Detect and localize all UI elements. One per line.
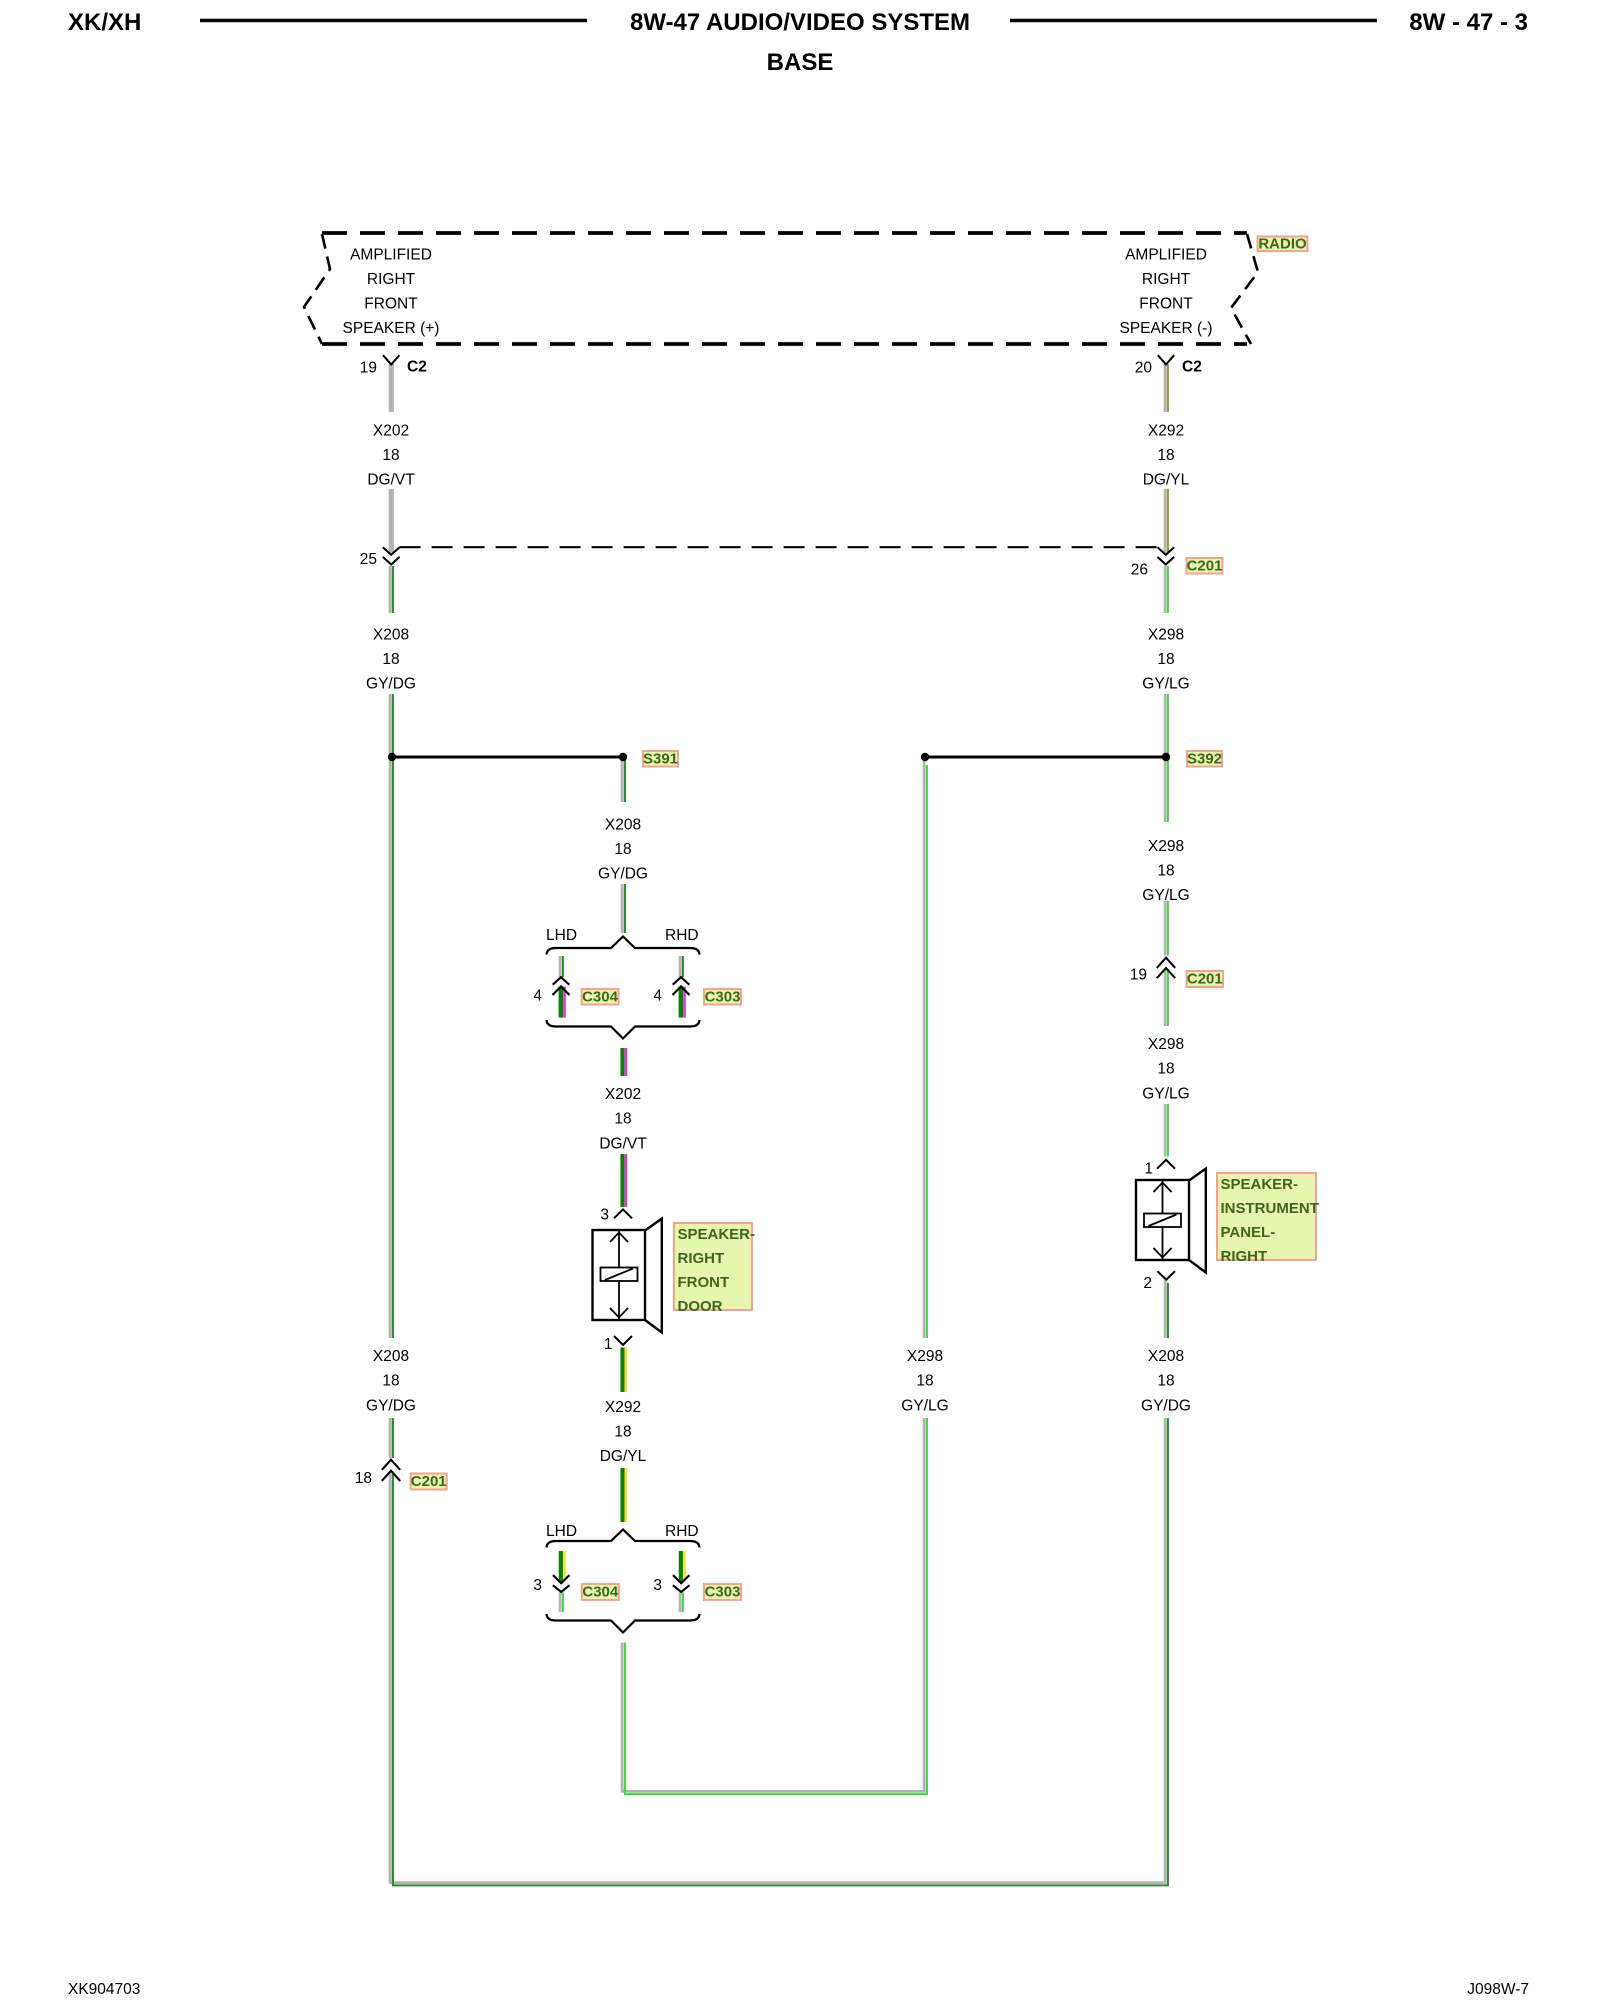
svg-text:FRONT: FRONT — [1139, 296, 1193, 313]
connector C304 pin 3 arrowhead — [553, 1575, 569, 1583]
svg-text:C201: C201 — [1187, 558, 1223, 575]
connector label C304 upper — [582, 989, 619, 1006]
page subtitle BASE — [767, 49, 834, 76]
svg-text:C2: C2 — [1182, 359, 1202, 376]
svg-text:C2: C2 — [407, 359, 427, 376]
svg-text:RADIO: RADIO — [1258, 235, 1307, 252]
svg-text:C201: C201 — [1187, 971, 1223, 988]
pin number 1 speaker door — [604, 1336, 613, 1353]
svg-text:LHD: LHD — [546, 927, 577, 944]
pin number 20 C2 — [1135, 360, 1153, 377]
pin number 4 C304 — [533, 988, 542, 1005]
svg-text:RIGHT: RIGHT — [678, 1250, 725, 1267]
LHD text upper — [546, 927, 577, 944]
svg-text:AMPLIFIED: AMPLIFIED — [350, 246, 432, 263]
svg-text:S392: S392 — [1187, 751, 1222, 768]
svg-text:18: 18 — [382, 1373, 399, 1390]
page header number right — [1409, 9, 1528, 36]
svg-text:X202: X202 — [373, 423, 409, 440]
wire label X298 18 GY/LG right mid — [1137, 613, 1195, 694]
connector label C201 at pin 19 — [1187, 971, 1224, 988]
connector C304 pin 4 wire end chevron — [553, 977, 570, 985]
header rule right — [1010, 19, 1377, 22]
svg-text:8W - 47 - 3: 8W - 47 - 3 — [1409, 9, 1528, 36]
page header title left — [68, 9, 141, 36]
pin number 4 C303 — [653, 988, 662, 1005]
connector C303 pin 3 arrowhead — [673, 1575, 689, 1583]
splice label S392 — [1187, 751, 1222, 768]
wire X298 18 GY/LG bracket down inner U up to S392 — [622, 761, 927, 1794]
LHD/RHD lower split bracket — [547, 1530, 700, 1548]
splice S392 — [921, 753, 1170, 761]
pin number 18 C201 — [355, 1470, 372, 1487]
wire X208 18 GY/DG left column C201 pin25 to S391 to bottom U to speaker pin2 — [390, 566, 1168, 1885]
svg-text:18: 18 — [1157, 1373, 1174, 1390]
wire label X208 18 GY/DG middle branch — [594, 802, 652, 884]
speaker instrument panel right label box — [1217, 1173, 1319, 1265]
wire X292 18 DG/YL speaker pin1 to LHD/RHD bracket — [623, 1348, 627, 1523]
wire X208 18 GY/DG middle branch S391 to LHD/RHD bracket — [622, 757, 625, 933]
svg-text:18: 18 — [1157, 447, 1174, 464]
svg-text:3: 3 — [600, 1207, 609, 1224]
splice label S391 — [643, 751, 678, 768]
svg-text:SPEAKER (-): SPEAKER (-) — [1119, 320, 1212, 337]
wire stub RHD C303 pin4 upper — [680, 956, 683, 977]
radio box jagged right edge — [1231, 234, 1258, 344]
svg-text:1: 1 — [604, 1336, 613, 1353]
pin number 19 C201 — [1130, 967, 1147, 984]
pin number 26 — [1131, 562, 1148, 579]
wire X298 18 GY/LG right column C201 pin26 to S392 to speaker pin1 — [1165, 566, 1168, 1157]
svg-text:X298: X298 — [1148, 1036, 1184, 1053]
svg-text:20: 20 — [1135, 360, 1153, 377]
connector name C2 right — [1182, 359, 1202, 376]
svg-text:X208: X208 — [373, 626, 409, 643]
connector C303 pin 4 arrowhead — [673, 986, 690, 995]
svg-text:DG/VT: DG/VT — [599, 1136, 647, 1153]
radio box jagged left edge — [304, 234, 330, 344]
svg-text:18: 18 — [614, 841, 631, 858]
wire label X292 18 DG/YL top right — [1137, 412, 1195, 489]
svg-text:25: 25 — [360, 551, 377, 568]
svg-text:RHD: RHD — [665, 927, 699, 944]
connector label C201 at pin 18 — [411, 1473, 447, 1490]
connector label C201 at pins 25/26 — [1187, 558, 1223, 575]
svg-text:RHD: RHD — [665, 1523, 699, 1540]
LHD text lower — [546, 1523, 577, 1540]
svg-text:GY/DG: GY/DG — [366, 675, 416, 692]
wire label X298 18 GY/LG bottom middle — [896, 1338, 954, 1418]
pin number 1 speaker instrument panel — [1144, 1161, 1153, 1178]
connector name C2 left — [407, 359, 427, 376]
svg-text:4: 4 — [653, 988, 662, 1005]
svg-text:INSTRUMENT: INSTRUMENT — [1221, 1200, 1319, 1217]
wire label X202 18 DG/VT top left — [362, 412, 420, 489]
connector C201 pin 18 symbol — [382, 1460, 400, 1481]
svg-text:GY/DG: GY/DG — [598, 866, 648, 883]
svg-text:18: 18 — [382, 651, 399, 668]
wire label X208 18 GY/DG bottom right — [1137, 1338, 1195, 1418]
connector C303 pin 4 wire end chevron — [673, 977, 690, 985]
svg-text:3: 3 — [533, 1577, 542, 1594]
svg-text:GY/LG: GY/LG — [1142, 675, 1189, 692]
wire label X292 18 DG/YL bottom middle branch — [594, 1392, 652, 1468]
connector label C303 upper — [704, 989, 741, 1006]
pin number 25 — [360, 551, 377, 568]
LHD/RHD lower merge bracket — [547, 1614, 700, 1633]
svg-text:X208: X208 — [605, 817, 641, 834]
radio component label — [1258, 235, 1308, 252]
wire X292 18 DG/YL radio pin20 to C201 pin26 — [1165, 364, 1168, 553]
svg-text:19: 19 — [1130, 967, 1147, 984]
connector C201 dashed separation line — [400, 546, 1158, 548]
speaker right front door label box — [674, 1223, 755, 1315]
svg-text:GY/LG: GY/LG — [1142, 887, 1189, 904]
svg-text:1: 1 — [1144, 1161, 1153, 1178]
wire label X202 18 DG/VT middle — [594, 1076, 652, 1154]
wire arrow X202 DG/VT into C304 pin4 — [561, 987, 565, 1018]
svg-text:26: 26 — [1131, 562, 1148, 579]
speaker instrument panel right pin 1 chevron — [1155, 1158, 1177, 1180]
LHD/RHD upper merge bracket — [547, 1020, 700, 1039]
wire arrow X292 DG/YL into C304 pin3 — [561, 1551, 565, 1583]
connector C201 pin 19 symbol — [1157, 958, 1175, 979]
svg-text:DG/VT: DG/VT — [367, 472, 415, 489]
connector C2 pin 19 symbol — [383, 355, 399, 364]
page footer right — [1467, 1981, 1529, 1998]
svg-text:LHD: LHD — [546, 1523, 577, 1540]
RHD text lower — [665, 1523, 699, 1540]
svg-text:18: 18 — [614, 1111, 631, 1128]
svg-text:DOOR: DOOR — [678, 1298, 723, 1315]
svg-text:PANEL-: PANEL- — [1221, 1224, 1276, 1241]
wire label X298 18 GY/LG right below S392 — [1137, 822, 1195, 904]
wire label X298 18 GY/LG right above speaker — [1137, 1026, 1195, 1104]
speaker right front door pin 3 chevron — [614, 1209, 632, 1218]
svg-text:X292: X292 — [1148, 423, 1184, 440]
svg-text:C201: C201 — [411, 1473, 447, 1490]
svg-text:RIGHT: RIGHT — [1142, 271, 1191, 288]
speaker right front door symbol — [593, 1219, 662, 1333]
connector C201 pin 26 symbol — [1157, 547, 1174, 564]
svg-text:18: 18 — [1157, 863, 1174, 880]
header rule left — [200, 19, 587, 22]
svg-text:S391: S391 — [643, 751, 678, 768]
RHD text upper — [665, 927, 699, 944]
radio text right block — [1119, 246, 1212, 337]
svg-text:AMPLIFIED: AMPLIFIED — [1125, 246, 1207, 263]
svg-text:GY/DG: GY/DG — [1141, 1397, 1191, 1414]
svg-text:C304: C304 — [582, 1584, 619, 1601]
svg-text:XK904703: XK904703 — [68, 1981, 140, 1998]
connector C201 pin 25 symbol — [383, 547, 400, 564]
svg-text:18: 18 — [355, 1470, 372, 1487]
speaker instrument panel right symbol — [1136, 1169, 1206, 1273]
svg-text:SPEAKER-: SPEAKER- — [1221, 1176, 1299, 1193]
svg-text:J098W-7: J098W-7 — [1467, 1981, 1529, 1998]
svg-text:FRONT: FRONT — [364, 296, 418, 313]
wire label X208 18 GY/DG bottom left — [362, 1338, 420, 1418]
pin number 3 C303 — [653, 1577, 662, 1594]
speaker instrument panel right pin 2 chevron — [1157, 1271, 1175, 1280]
connector C303 pin 3 wire end chevron — [673, 1585, 690, 1592]
svg-text:19: 19 — [360, 360, 377, 377]
connector C201 pin 18 gap mask — [380, 1458, 402, 1472]
connector C2 pin 20 symbol — [1158, 355, 1174, 364]
svg-text:RIGHT: RIGHT — [367, 271, 416, 288]
svg-text:BASE: BASE — [767, 49, 834, 76]
svg-text:C303: C303 — [705, 989, 741, 1006]
svg-text:18: 18 — [614, 1424, 631, 1441]
pin number 3 speaker door — [600, 1207, 609, 1224]
svg-text:RIGHT: RIGHT — [1221, 1248, 1268, 1265]
splice S391 — [388, 753, 627, 761]
svg-text:GY/DG: GY/DG — [366, 1397, 416, 1414]
svg-text:8W-47 AUDIO/VIDEO SYSTEM: 8W-47 AUDIO/VIDEO SYSTEM — [630, 9, 970, 36]
svg-text:3: 3 — [653, 1577, 662, 1594]
LHD/RHD upper split bracket — [547, 937, 700, 955]
svg-text:X298: X298 — [907, 1348, 943, 1365]
wire X202 18 DG/VT radio pin19 to C201 pin25 — [389, 364, 394, 553]
radio text left block — [343, 246, 440, 337]
svg-text:DG/YL: DG/YL — [600, 1448, 647, 1465]
page footer left — [68, 1981, 140, 1998]
radio box dashed bottom border — [322, 342, 1247, 346]
svg-text:X202: X202 — [605, 1086, 641, 1103]
svg-text:4: 4 — [533, 988, 542, 1005]
svg-text:18: 18 — [1157, 651, 1174, 668]
svg-text:18: 18 — [1157, 1061, 1174, 1078]
svg-text:GY/LG: GY/LG — [1142, 1085, 1189, 1102]
wire arrow X292 DG/YL into C303 pin3 — [681, 1551, 685, 1583]
speaker right front door pin 1 chevron — [614, 1336, 632, 1345]
pin number 2 speaker instrument panel — [1143, 1275, 1152, 1292]
wire arrow X202 DG/VT into C303 pin4 — [681, 987, 685, 1018]
connector C201 pin 19 gap mask — [1155, 956, 1177, 970]
connector label C304 lower — [582, 1584, 619, 1601]
svg-text:C303: C303 — [705, 1584, 741, 1601]
svg-text:GY/LG: GY/LG — [901, 1397, 948, 1414]
svg-text:X298: X298 — [1148, 838, 1184, 855]
pin number 19 C2 — [360, 360, 377, 377]
pin number 3 C304 — [533, 1577, 542, 1594]
connector C304 pin 3 wire end chevron — [553, 1585, 570, 1592]
wire stub RHD C303 pin3 lower GY/LG — [680, 1592, 683, 1612]
svg-text:X292: X292 — [605, 1399, 641, 1416]
svg-text:X298: X298 — [1148, 626, 1184, 643]
svg-text:SPEAKER-: SPEAKER- — [678, 1226, 756, 1243]
svg-text:C304: C304 — [582, 989, 619, 1006]
svg-text:XK/XH: XK/XH — [68, 9, 141, 36]
wire label X208 18 GY/DG left mid — [362, 613, 420, 694]
svg-text:DG/YL: DG/YL — [1143, 472, 1190, 489]
wire X202 18 DG/VT bracket to speaker pin3 — [623, 1048, 627, 1207]
wire stub LHD C304 pin4 upper — [560, 956, 563, 977]
svg-text:18: 18 — [382, 447, 399, 464]
connector label C303 lower — [704, 1584, 741, 1601]
radio box dashed top border — [322, 231, 1247, 235]
svg-text:18: 18 — [916, 1373, 933, 1390]
connector C304 pin 4 arrowhead — [553, 986, 570, 995]
svg-text:SPEAKER (+): SPEAKER (+) — [343, 320, 440, 337]
svg-text:X208: X208 — [373, 1348, 409, 1365]
svg-text:X208: X208 — [1148, 1348, 1184, 1365]
wire stub LHD C304 pin3 lower GY/LG — [560, 1592, 563, 1612]
page header title center — [630, 9, 970, 36]
svg-text:FRONT: FRONT — [678, 1274, 730, 1291]
svg-text:2: 2 — [1143, 1275, 1152, 1292]
